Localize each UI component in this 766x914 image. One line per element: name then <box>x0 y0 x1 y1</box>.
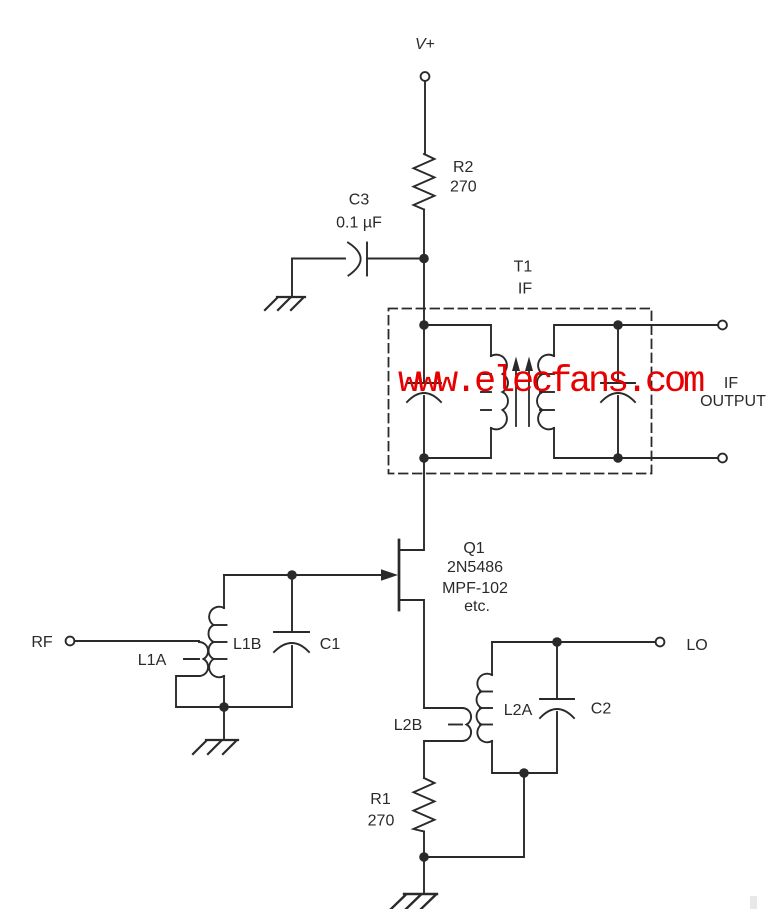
svg-text:L1B: L1B <box>233 636 261 653</box>
wire to bottom ground <box>423 857 425 894</box>
svg-text:2N5486: 2N5486 <box>447 559 503 576</box>
wire LO bus <box>492 641 656 643</box>
wire RF to L1A <box>75 640 200 642</box>
wire IF output top <box>618 324 718 326</box>
wire secondary cap bottom <box>617 396 619 458</box>
svg-text:0.1 µF: 0.1 µF <box>336 215 382 232</box>
wire R1 to ground junction <box>423 832 425 858</box>
wire T1 to Q1 drain <box>399 458 424 550</box>
wire C2 bottom lead <box>556 712 558 773</box>
wire primary cap to bottom junction <box>423 396 425 458</box>
inductor T1 secondary winding <box>537 355 554 430</box>
node L1 ground junction <box>219 702 229 712</box>
inductor T1 primary winding <box>491 355 508 430</box>
transformer T1 dashed box <box>389 309 652 474</box>
wire L1A bottom loop <box>176 676 292 707</box>
inductor L2A <box>477 674 492 743</box>
node R1 ground junction <box>419 852 429 862</box>
wire V+ to R2 <box>424 81 426 154</box>
node secondary top junction <box>613 320 623 330</box>
svg-text:C3: C3 <box>349 192 370 209</box>
node secondary bottom junction <box>613 453 623 463</box>
svg-text:etc.: etc. <box>464 598 490 615</box>
capacitor C3 <box>348 243 361 276</box>
core arrow 2 <box>528 368 530 426</box>
node L2 bottom junction <box>519 768 529 778</box>
inductor L2B <box>462 708 471 741</box>
wire C1 bottom lead <box>291 646 293 707</box>
svg-text:Q1: Q1 <box>463 540 484 557</box>
node LO/C2 junction <box>552 637 562 647</box>
svg-text:LO: LO <box>686 637 707 654</box>
inductor L1A <box>199 642 208 676</box>
resistor R1 <box>414 778 435 832</box>
svg-text:L1A: L1A <box>138 652 167 669</box>
svg-text:R1: R1 <box>370 791 391 808</box>
svg-text:www.elecfans.com: www.elecfans.com <box>398 361 704 403</box>
ground (bottom) <box>391 894 437 909</box>
capacitor C1 <box>274 631 309 633</box>
wire C3 to ground <box>291 259 293 298</box>
svg-text:R2: R2 <box>453 159 474 176</box>
wire secondary bottom <box>554 428 618 458</box>
node T1 primary bottom junction <box>419 453 429 463</box>
wire secondary cap top <box>617 325 619 383</box>
wire L2A bottom to C2 <box>492 741 557 773</box>
svg-text:RF: RF <box>31 634 53 651</box>
wire L2A top lead <box>491 642 493 675</box>
svg-text:IF: IF <box>518 281 532 298</box>
resistor R2 <box>414 154 435 210</box>
node T1 primary top junction <box>419 320 429 330</box>
ground (L1) <box>193 740 238 754</box>
wire source to L2B <box>424 707 462 709</box>
svg-text:L2A: L2A <box>504 702 533 719</box>
svg-text:C1: C1 <box>320 636 341 653</box>
core arrow 1 <box>515 368 517 426</box>
terminal IF output bottom <box>718 454 727 463</box>
wire C3 left lead <box>292 258 345 260</box>
svg-text:C2: C2 <box>591 701 612 718</box>
wire IF output bottom <box>618 457 718 459</box>
svg-text:270: 270 <box>368 813 395 830</box>
wire L1B top lead <box>223 575 225 608</box>
inductor L1B <box>208 607 224 678</box>
wire R2 to C3 node <box>423 210 425 259</box>
capacitor C2 <box>540 698 574 700</box>
capacitor T1 primary tuning <box>408 382 441 384</box>
wire primary top <box>424 325 491 356</box>
wire C3 node into T1 box <box>423 259 425 384</box>
wire secondary top <box>554 325 618 356</box>
terminal V+ <box>421 72 430 81</box>
wire C1 top lead <box>291 575 293 632</box>
wire L1B bottom lead <box>223 676 225 707</box>
svg-text:IF: IF <box>724 375 738 392</box>
svg-text:T1: T1 <box>514 259 533 276</box>
terminal LO <box>656 638 665 647</box>
scan artifact bottom right <box>750 896 757 909</box>
svg-text:OUTPUT: OUTPUT <box>700 393 766 410</box>
arrow Q1 gate <box>381 569 398 580</box>
svg-text:MPF-102: MPF-102 <box>442 580 508 597</box>
capacitor T1 secondary tuning <box>601 382 635 384</box>
wire C2 top lead <box>556 642 558 699</box>
terminal RF <box>66 637 75 646</box>
wire L2B bottom to R1 <box>424 741 462 778</box>
svg-text:L2B: L2B <box>394 717 422 734</box>
node gate junction <box>287 570 297 580</box>
svg-text:270: 270 <box>450 179 477 196</box>
wire L2 bottom to R1 bottom <box>424 773 524 857</box>
wire Q1 gate <box>224 574 382 576</box>
wire Q1 source <box>399 600 424 708</box>
wire primary bottom <box>424 428 491 458</box>
node C3/R2 junction <box>419 254 429 264</box>
svg-text:V+: V+ <box>415 36 435 53</box>
transistor Q1 channel <box>398 540 401 610</box>
wire L1 junction to ground <box>223 707 225 740</box>
terminal IF output top <box>718 321 727 330</box>
wire C3 right lead <box>367 258 424 260</box>
ground (C3) <box>265 297 305 310</box>
